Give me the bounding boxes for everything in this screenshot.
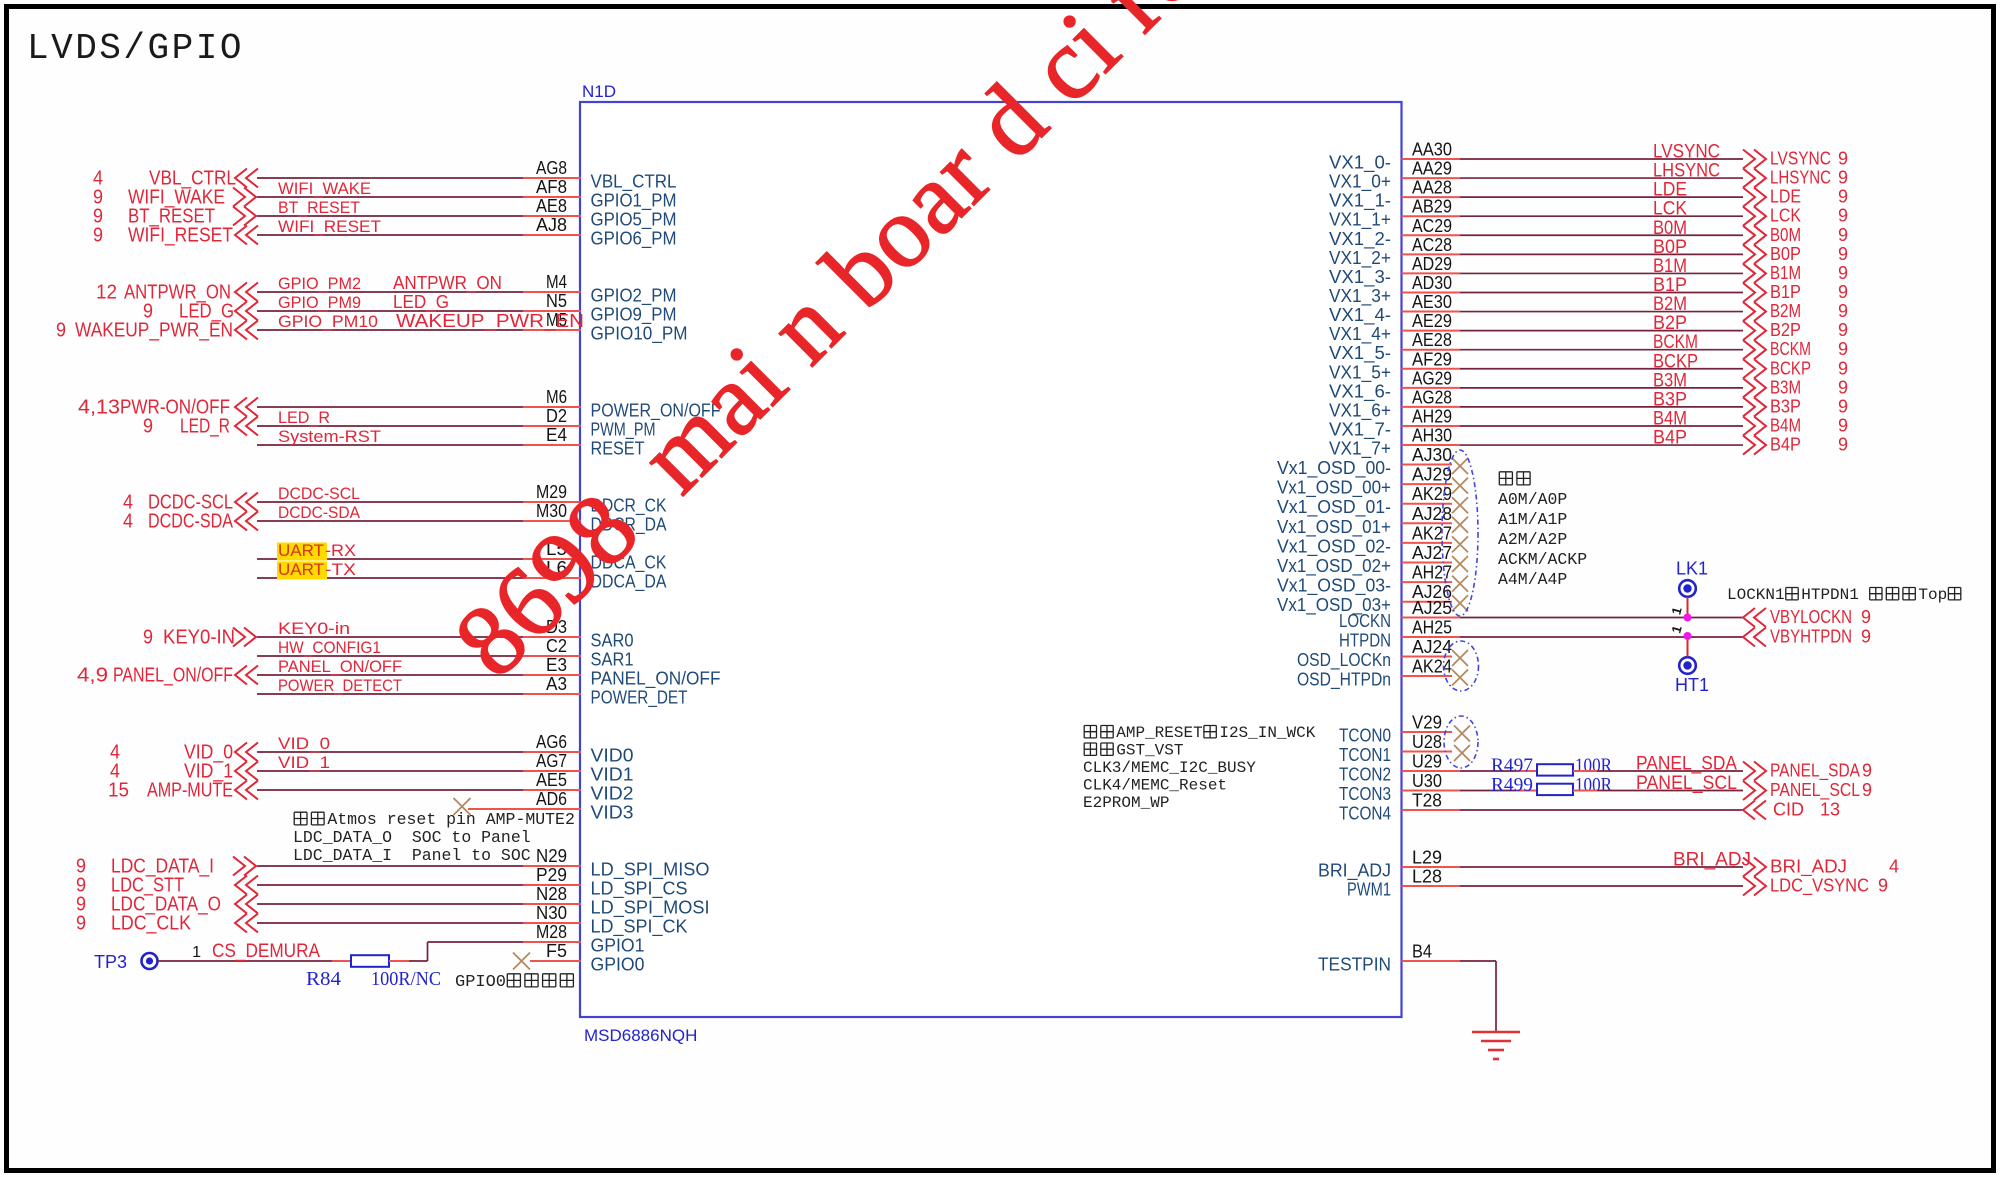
pin N5 (GPIO9_PM) wire group [257,310,523,312]
deleted pin AK27 (Vx1_OSD_02-) stub with X [1402,542,1453,544]
svg-text:1: 1 [192,944,201,961]
svg-text:B3M: B3M [1770,377,1801,397]
svg-text:AA30: AA30 [1412,140,1452,160]
svg-text:4: 4 [1889,857,1899,877]
pin L5 (DDCA_CK) wire group [257,558,523,560]
svg-text:AE5: AE5 [536,770,567,790]
svg-text:CLK4/MEMC_Reset: CLK4/MEMC_Reset [1083,777,1227,795]
svg-text:AE8: AE8 [536,196,567,216]
port PWR-ON/OFF (page 4,13) [235,398,258,417]
port BT_RESET (page 9) [233,207,256,226]
svg-text:WAKEUP_PWR_EN: WAKEUP_PWR_EN [396,310,584,332]
svg-text:Vx1_OSD_01+: Vx1_OSD_01+ [1277,517,1391,538]
svg-text:9: 9 [1862,780,1872,800]
pin M30 (DDCR_DA) wire group [257,520,523,522]
pin AE8 (GPIO5_PM) wire group [257,215,523,217]
dashed ellipse around deleted OSD pins [1442,450,1478,616]
pin AG8 (VBL_CTRL) wire group [257,177,523,179]
port AMP-MUTE (page 15) [235,781,258,800]
svg-text:VID0: VID0 [591,746,634,766]
wire VX1_7+ pin AH30 net B4P [1402,444,1461,446]
wire TCON2 pin U29 [1402,770,1461,772]
svg-text:Atmos reset pin AMP-MUTE2: Atmos reset pin AMP-MUTE2 [327,810,575,829]
svg-text:B4M: B4M [1770,415,1801,435]
port VBYHTPDN page 9 [1743,628,1766,647]
svg-text:TCON3: TCON3 [1339,784,1391,804]
svg-text:BCKP: BCKP [1770,358,1811,378]
svg-text:GPIO1: GPIO1 [591,936,645,956]
svg-text:System-RST: System-RST [278,427,381,446]
svg-text:VBYHTPDN: VBYHTPDN [1770,627,1852,647]
port B0P page 9 [1743,245,1766,264]
svg-text:DCDC-SDA: DCDC-SDA [148,511,234,533]
svg-text:9: 9 [1862,761,1872,781]
svg-text:9: 9 [1838,320,1848,340]
svg-text:U28: U28 [1412,732,1442,752]
svg-text:VID_0: VID_0 [278,734,330,753]
svg-text:100R: 100R [1575,775,1612,796]
op-amp/IC U=N1D MSD6886NQH chip body [580,102,1402,1017]
svg-text:AJ27: AJ27 [1412,543,1452,563]
deleted pin AH27 (Vx1_OSD_03-) stub with X [1402,581,1453,583]
deleted pin AJ29 (Vx1_OSD_00+) stub with X [1402,483,1453,485]
svg-text:VX1_4-: VX1_4- [1329,305,1391,326]
svg-text:B0P: B0P [1653,237,1687,258]
port B1M page 9 [1743,264,1766,283]
svg-text:4,13: 4,13 [78,397,120,419]
svg-text:GST_VST: GST_VST [1116,742,1183,760]
svg-text:9: 9 [1838,225,1848,245]
svg-text:POWER_DET: POWER_DET [591,688,688,709]
svg-text:AH27: AH27 [1412,563,1452,583]
port B2P page 9 [1743,321,1766,340]
svg-text:PANEL_ON/OFF: PANEL_ON/OFF [278,657,402,676]
wire VX1_6+ pin AG28 net B3P [1402,406,1461,408]
svg-text:AE30: AE30 [1412,292,1452,312]
testpoint TP3 [142,953,158,969]
svg-text:9: 9 [1838,282,1848,302]
port KEY0-IN (page 9) [233,628,256,647]
deleted pin AJ26 (Vx1_OSD_03+) stub with X [1402,601,1453,603]
svg-text:LDC_CLK: LDC_CLK [111,913,192,935]
svg-text:AG8: AG8 [536,158,567,178]
svg-text:U29: U29 [1412,752,1442,772]
svg-text:9: 9 [1838,339,1848,359]
port PANEL_SCL page 9 [1743,781,1766,800]
svg-text:BRI_ADJ: BRI_ADJ [1318,861,1391,882]
port LDC_CLK (page 9) [235,914,258,933]
wire TCON to R499 [1460,790,1516,792]
svg-text:LDC_DATA_I Panel to SOC: LDC_DATA_I Panel to SOC [293,846,531,865]
wire VX1_5+ pin AF29 net BCKP [1402,368,1461,370]
svg-text:R84: R84 [306,969,341,990]
port B2M page 9 [1743,302,1766,321]
svg-text:9: 9 [1838,358,1848,378]
svg-text:AG29: AG29 [1412,368,1452,388]
svg-text:TESTPIN: TESTPIN [1318,955,1391,975]
svg-text:DCDC-SCL: DCDC-SCL [278,484,360,503]
svg-text:L29: L29 [1412,848,1442,868]
port LDC_STT (page 9) [235,876,258,895]
note: deleted nets list [1499,472,1512,485]
svg-text:R497: R497 [1491,756,1533,777]
svg-text:E4: E4 [546,425,567,445]
pin E4 (RESET) wire group [257,444,523,446]
svg-text:VID_1: VID_1 [278,753,330,772]
port DCDC-SCL (page 4) [235,493,258,512]
svg-text:B1P: B1P [1770,282,1801,302]
deleted pin AK29 (Vx1_OSD_01-) stub with X [1402,503,1453,505]
pin C2 (SAR1) wire group [257,655,523,657]
svg-text:PANEL_SDA: PANEL_SDA [1770,761,1860,782]
svg-text:13: 13 [1820,800,1840,820]
svg-text:T28: T28 [1412,791,1442,811]
svg-text:N5: N5 [546,291,567,311]
svg-text:N30: N30 [536,903,567,923]
svg-text:P29: P29 [536,865,567,885]
svg-text:AC29: AC29 [1412,216,1452,236]
pin F5 (GPIO0) wire group [530,960,581,962]
svg-text:WIFI_RESET: WIFI_RESET [278,217,381,236]
svg-text:DCDC-SDA: DCDC-SDA [278,503,361,522]
svg-text:PANEL_SDA: PANEL_SDA [1636,754,1737,775]
svg-text:AJ28: AJ28 [1412,504,1452,524]
svg-text:WAKEUP_PWR_EN: WAKEUP_PWR_EN [75,320,233,342]
svg-text:Top: Top [1918,586,1947,604]
svg-text:AB29: AB29 [1412,197,1452,217]
svg-text:LED_R: LED_R [180,416,230,438]
svg-text:VID1: VID1 [591,765,634,785]
svg-text:LVSYNC: LVSYNC [1653,142,1720,163]
port LVSYNC page 9 [1743,150,1766,169]
svg-text:UART: UART [278,541,324,560]
svg-text:B4: B4 [1412,942,1432,962]
svg-text:AJ8: AJ8 [536,215,567,235]
svg-text:B4P: B4P [1653,428,1687,449]
port ANTPWR_ON (page 12) [235,283,258,302]
svg-text:B1M: B1M [1770,263,1801,283]
wire PWM1 pin L28 [1402,885,1461,887]
svg-text:9: 9 [1838,396,1848,416]
wire TCON4 pin T28 [1402,809,1461,811]
svg-text:AF8: AF8 [536,177,567,197]
port PANEL_ON/OFF (page 4,9) [235,666,258,685]
svg-text:LVDS/GPIO: LVDS/GPIO [27,28,244,69]
svg-text:N29: N29 [536,846,567,866]
svg-text:AD30: AD30 [1412,273,1452,293]
svg-text:B2M: B2M [1770,301,1801,321]
wire R84 to GPIO1 pin M28 [389,960,409,962]
svg-text:100R/NC: 100R/NC [371,969,441,990]
deleted pin AJ30 (Vx1_OSD_00-) stub with X [1402,464,1453,466]
svg-text:B2P: B2P [1770,320,1801,340]
svg-text:UART: UART [278,560,324,579]
svg-text:B3M: B3M [1653,370,1687,391]
svg-text:BCKM: BCKM [1653,332,1698,353]
svg-text:AMP-MUTE: AMP-MUTE [147,780,233,802]
svg-text:CLK3/MEMC_I2C_BUSY: CLK3/MEMC_I2C_BUSY [1083,759,1256,777]
svg-text:LD_SPI_CK: LD_SPI_CK [591,917,688,938]
svg-text:HW_CONFIG1: HW_CONFIG1 [278,638,381,657]
deleted pin AJ24 (OSD_LOCKn) stub with X [1402,656,1453,658]
svg-text:KEY0-in: KEY0-in [278,619,350,638]
svg-text:LOCKN1: LOCKN1 [1727,586,1785,604]
svg-text:GPIO2_PM: GPIO2_PM [591,286,677,307]
svg-text:N28: N28 [536,884,567,904]
svg-text:AK27: AK27 [1412,523,1452,543]
svg-text:4: 4 [123,511,133,533]
svg-text:F5: F5 [546,941,567,961]
svg-text:B0M: B0M [1653,218,1687,239]
svg-text:AG28: AG28 [1412,387,1452,407]
svg-text:Vx1_OSD_00-: Vx1_OSD_00- [1277,458,1391,479]
svg-text:WIFI_RESET: WIFI_RESET [128,225,233,247]
wire VX1_5- pin AE28 net BCKM [1402,349,1461,351]
svg-text:B0M: B0M [1770,225,1801,245]
svg-text:OSD_LOCKn: OSD_LOCKn [1297,650,1391,671]
svg-text:LED_R: LED_R [278,408,330,427]
svg-text:POWER_DETECT: POWER_DETECT [278,676,402,695]
svg-text:BCKP: BCKP [1653,351,1698,372]
port BCKP page 9 [1743,359,1766,378]
svg-text:B0P: B0P [1770,244,1801,264]
svg-text:R499: R499 [1491,775,1533,796]
svg-text:TCON2: TCON2 [1339,765,1391,785]
svg-text:CS_DEMURA: CS_DEMURA [212,941,320,962]
wire BRI_ADJ pin L29 [1402,866,1461,868]
svg-text:9: 9 [1838,206,1848,226]
svg-text:9: 9 [1838,244,1848,264]
svg-text:AA29: AA29 [1412,159,1452,179]
wire VX1_0+ pin AA29 net LHSYNC [1402,177,1461,179]
svg-text:PANEL_ON/OFF: PANEL_ON/OFF [591,669,721,690]
svg-text:VID3: VID3 [591,803,634,823]
svg-text:AH30: AH30 [1412,426,1452,446]
svg-text:VX1_3+: VX1_3+ [1329,286,1391,307]
svg-text:LK1: LK1 [1676,559,1708,579]
svg-text:M6: M6 [546,387,567,407]
port BCKM page 9 [1743,340,1766,359]
svg-text:AE28: AE28 [1412,330,1452,350]
svg-text:LOCKN: LOCKN [1339,611,1391,631]
port CID page 13 [1743,801,1766,820]
port PANEL_SDA page 9 [1743,762,1766,781]
pin N28 (LD_SPI_MOSI) wire group [257,903,523,905]
svg-text:9: 9 [1838,377,1848,397]
svg-text:LD_SPI_MISO: LD_SPI_MISO [591,860,710,881]
svg-text:TCON0: TCON0 [1339,726,1391,746]
dashed ellipse around deleted TCON0/TCON1 [1444,716,1478,768]
wire VX1_1- pin AA28 net LDE [1402,196,1461,198]
deleted pin U28 (TCON1) stub with X [1402,751,1453,753]
wire HT1 pin1 to HTPDN [1687,637,1689,657]
pin M5 (GPIO10_PM) wire group [257,329,523,331]
port B4P page 9 [1743,436,1766,455]
svg-text:VBYLOCKN: VBYLOCKN [1770,607,1852,627]
pin AG6 (VID0) wire group [257,751,523,753]
svg-text:E2PROM_WP: E2PROM_WP [1083,794,1169,812]
net label UART (highlighted) [277,543,327,561]
svg-text:VX1_0+: VX1_0+ [1329,172,1391,193]
svg-text:VX1_0-: VX1_0- [1329,153,1391,174]
svg-text:WIFI_WAKE: WIFI_WAKE [278,179,371,198]
svg-text:B2M: B2M [1653,294,1687,315]
svg-text:AG7: AG7 [536,751,567,771]
svg-text:9: 9 [1838,263,1848,283]
svg-text:LDE: LDE [1653,180,1687,201]
svg-text:VX1_2+: VX1_2+ [1329,248,1391,269]
deleted pin AJ28 (Vx1_OSD_01+) stub with X [1402,522,1453,524]
svg-text:OSD_HTPDn: OSD_HTPDn [1297,670,1391,691]
svg-text:9: 9 [1878,876,1888,896]
svg-text:-TX: -TX [325,560,356,579]
port LHSYNC page 9 [1743,169,1766,188]
pin AD6 (VID3) wire group [468,808,581,810]
wire R497 to port [1573,770,1597,772]
svg-text:LD_SPI_MOSI: LD_SPI_MOSI [591,898,710,919]
svg-text:AH25: AH25 [1412,618,1452,638]
svg-text:LDC_DATA_O SOC to Panel: LDC_DATA_O SOC to Panel [293,828,531,847]
svg-text:U30: U30 [1412,771,1442,791]
svg-text:GPIO5_PM: GPIO5_PM [591,210,677,231]
port VID_0 (page 4) [235,743,258,762]
svg-text:M4: M4 [546,272,567,292]
svg-text:B3P: B3P [1653,389,1687,410]
port B0M page 9 [1743,226,1766,245]
wire R499 to port [1573,790,1597,792]
svg-text:LDC_VSYNC: LDC_VSYNC [1770,876,1869,897]
svg-text:GPIO_PM2: GPIO_PM2 [278,274,361,293]
svg-text:GPIO1_PM: GPIO1_PM [591,191,677,212]
svg-text:LVSYNC: LVSYNC [1770,149,1831,169]
deleted pin V29 (TCON0) stub with X [1402,731,1453,733]
svg-text:AD6: AD6 [536,789,567,809]
svg-text:VX1_6+: VX1_6+ [1329,400,1391,421]
svg-text:M28: M28 [536,922,567,942]
svg-text:9: 9 [1838,168,1848,188]
svg-text:D2: D2 [546,406,567,426]
wire TP3 to R84 [158,960,332,962]
svg-text:TCON4: TCON4 [1339,804,1391,824]
port DCDC-SDA (page 4) [235,512,258,531]
svg-text:B1P: B1P [1653,275,1687,296]
svg-text:-RX: -RX [325,541,356,560]
svg-text:VX1_5-: VX1_5- [1329,343,1391,364]
svg-text:AK29: AK29 [1412,484,1452,504]
svg-text:VX1_7+: VX1_7+ [1329,439,1391,460]
port VBYLOCKN page 9 [1743,608,1766,627]
svg-text:BRI_ADJ: BRI_ADJ [1770,857,1847,878]
svg-text:9: 9 [56,320,66,342]
svg-text:AJ25: AJ25 [1412,598,1452,618]
wire VX1_4- pin AE30 net B2M [1402,311,1461,313]
port LDC_VSYNC page 9 [1743,877,1766,896]
wire LK1 pin1 to LOCKN [1687,597,1689,618]
note: deleted Atmos reset pin AMP-MUTE2 [294,812,307,825]
svg-text:4,9: 4,9 [77,665,108,687]
svg-text:9: 9 [1838,149,1848,169]
svg-text:AC28: AC28 [1412,235,1452,255]
svg-text:LCK: LCK [1653,199,1687,220]
port LED_R (page 9) [235,417,258,436]
wire VX1_0- pin AA30 net LVSYNC [1402,158,1461,160]
svg-text:B1M: B1M [1653,256,1687,277]
svg-text:AH29: AH29 [1412,406,1452,426]
svg-text:MSD6886NQH: MSD6886NQH [584,1026,697,1045]
svg-text:A0M/A0P: A0M/A0P [1498,490,1567,509]
pin AE5 (VID2) wire group [257,789,523,791]
port B3M page 9 [1743,378,1766,397]
port VBL_CTRL (page 4) [235,169,258,188]
svg-text:AG6: AG6 [536,732,567,752]
svg-text:ACKM/ACKP: ACKM/ACKP [1498,550,1587,569]
svg-text:B3P: B3P [1770,396,1801,416]
pin N30 (LD_SPI_CK) wire group [257,922,523,924]
svg-text:9: 9 [1838,435,1848,455]
svg-text:A2M/A2P: A2M/A2P [1498,530,1567,549]
wire VX1_2+ pin AC28 net B0P [1402,253,1461,255]
wire TESTPIN pin B4 [1402,960,1461,962]
svg-text:AJ30: AJ30 [1412,445,1452,465]
wire HTPDN pin AH25 [1402,636,1461,638]
svg-text:VBL_CTRL: VBL_CTRL [591,172,677,193]
note: adjust AMP_RESET / deleted list [1084,726,1096,738]
resistor R499 100R [1537,784,1573,795]
pin M6 (POWER_ON/OFF) wire group [257,406,523,408]
svg-text:PANEL_SCL: PANEL_SCL [1636,773,1737,794]
pin AJ8 (GPIO6_PM) wire group [257,234,523,236]
svg-text:TCON1: TCON1 [1339,745,1391,765]
port WIFI_WAKE (page 9) [233,188,256,207]
svg-text:CID: CID [1773,800,1804,820]
deleted pin AK24 (OSD_HTPDn) stub with X [1402,675,1453,677]
svg-text:Vx1_OSD_00+: Vx1_OSD_00+ [1277,478,1391,499]
svg-text:N1D: N1D [582,82,616,101]
svg-text:BRI_ADJ: BRI_ADJ [1673,850,1751,871]
svg-text:AE29: AE29 [1412,311,1452,331]
svg-text:PANEL_SCL: PANEL_SCL [1770,780,1860,801]
svg-text:L28: L28 [1412,867,1442,887]
svg-text:PANEL_ON/OFF: PANEL_ON/OFF [113,665,233,687]
pin M4 (GPIO2_PM) wire group [257,291,523,293]
svg-text:SAR1: SAR1 [591,650,634,670]
svg-text:9: 9 [1861,607,1871,627]
svg-text:GPIO_PM10: GPIO_PM10 [278,312,378,331]
port LCK page 9 [1743,207,1766,226]
svg-text:LHSYNC: LHSYNC [1653,161,1720,182]
ground symbol [1472,1031,1520,1034]
port B1P page 9 [1743,283,1766,302]
svg-text:PWM1: PWM1 [1347,880,1391,900]
svg-text:GPIO_PM9: GPIO_PM9 [278,293,361,312]
wire TCON to R497 [1460,770,1516,772]
svg-text:HTPDN: HTPDN [1339,631,1391,651]
svg-text:LCK: LCK [1770,206,1801,226]
svg-text:VX1_2-: VX1_2- [1329,229,1391,250]
svg-text:9: 9 [1861,627,1871,647]
svg-text:9: 9 [76,913,86,935]
svg-text:A1M/A1P: A1M/A1P [1498,510,1567,529]
svg-text:AMP_RESET: AMP_RESET [1116,724,1202,742]
svg-text:AD29: AD29 [1412,254,1452,274]
svg-text:KEY0-IN: KEY0-IN [163,627,235,649]
deleted pin AJ27 (Vx1_OSD_02+) stub with X [1402,562,1453,564]
port BRI_ADJ page 4 [1743,858,1766,877]
port B3P page 9 [1743,397,1766,416]
svg-text:B4M: B4M [1653,408,1687,429]
svg-text:B2P: B2P [1653,313,1687,334]
svg-text:GPIO6_PM: GPIO6_PM [591,229,677,250]
